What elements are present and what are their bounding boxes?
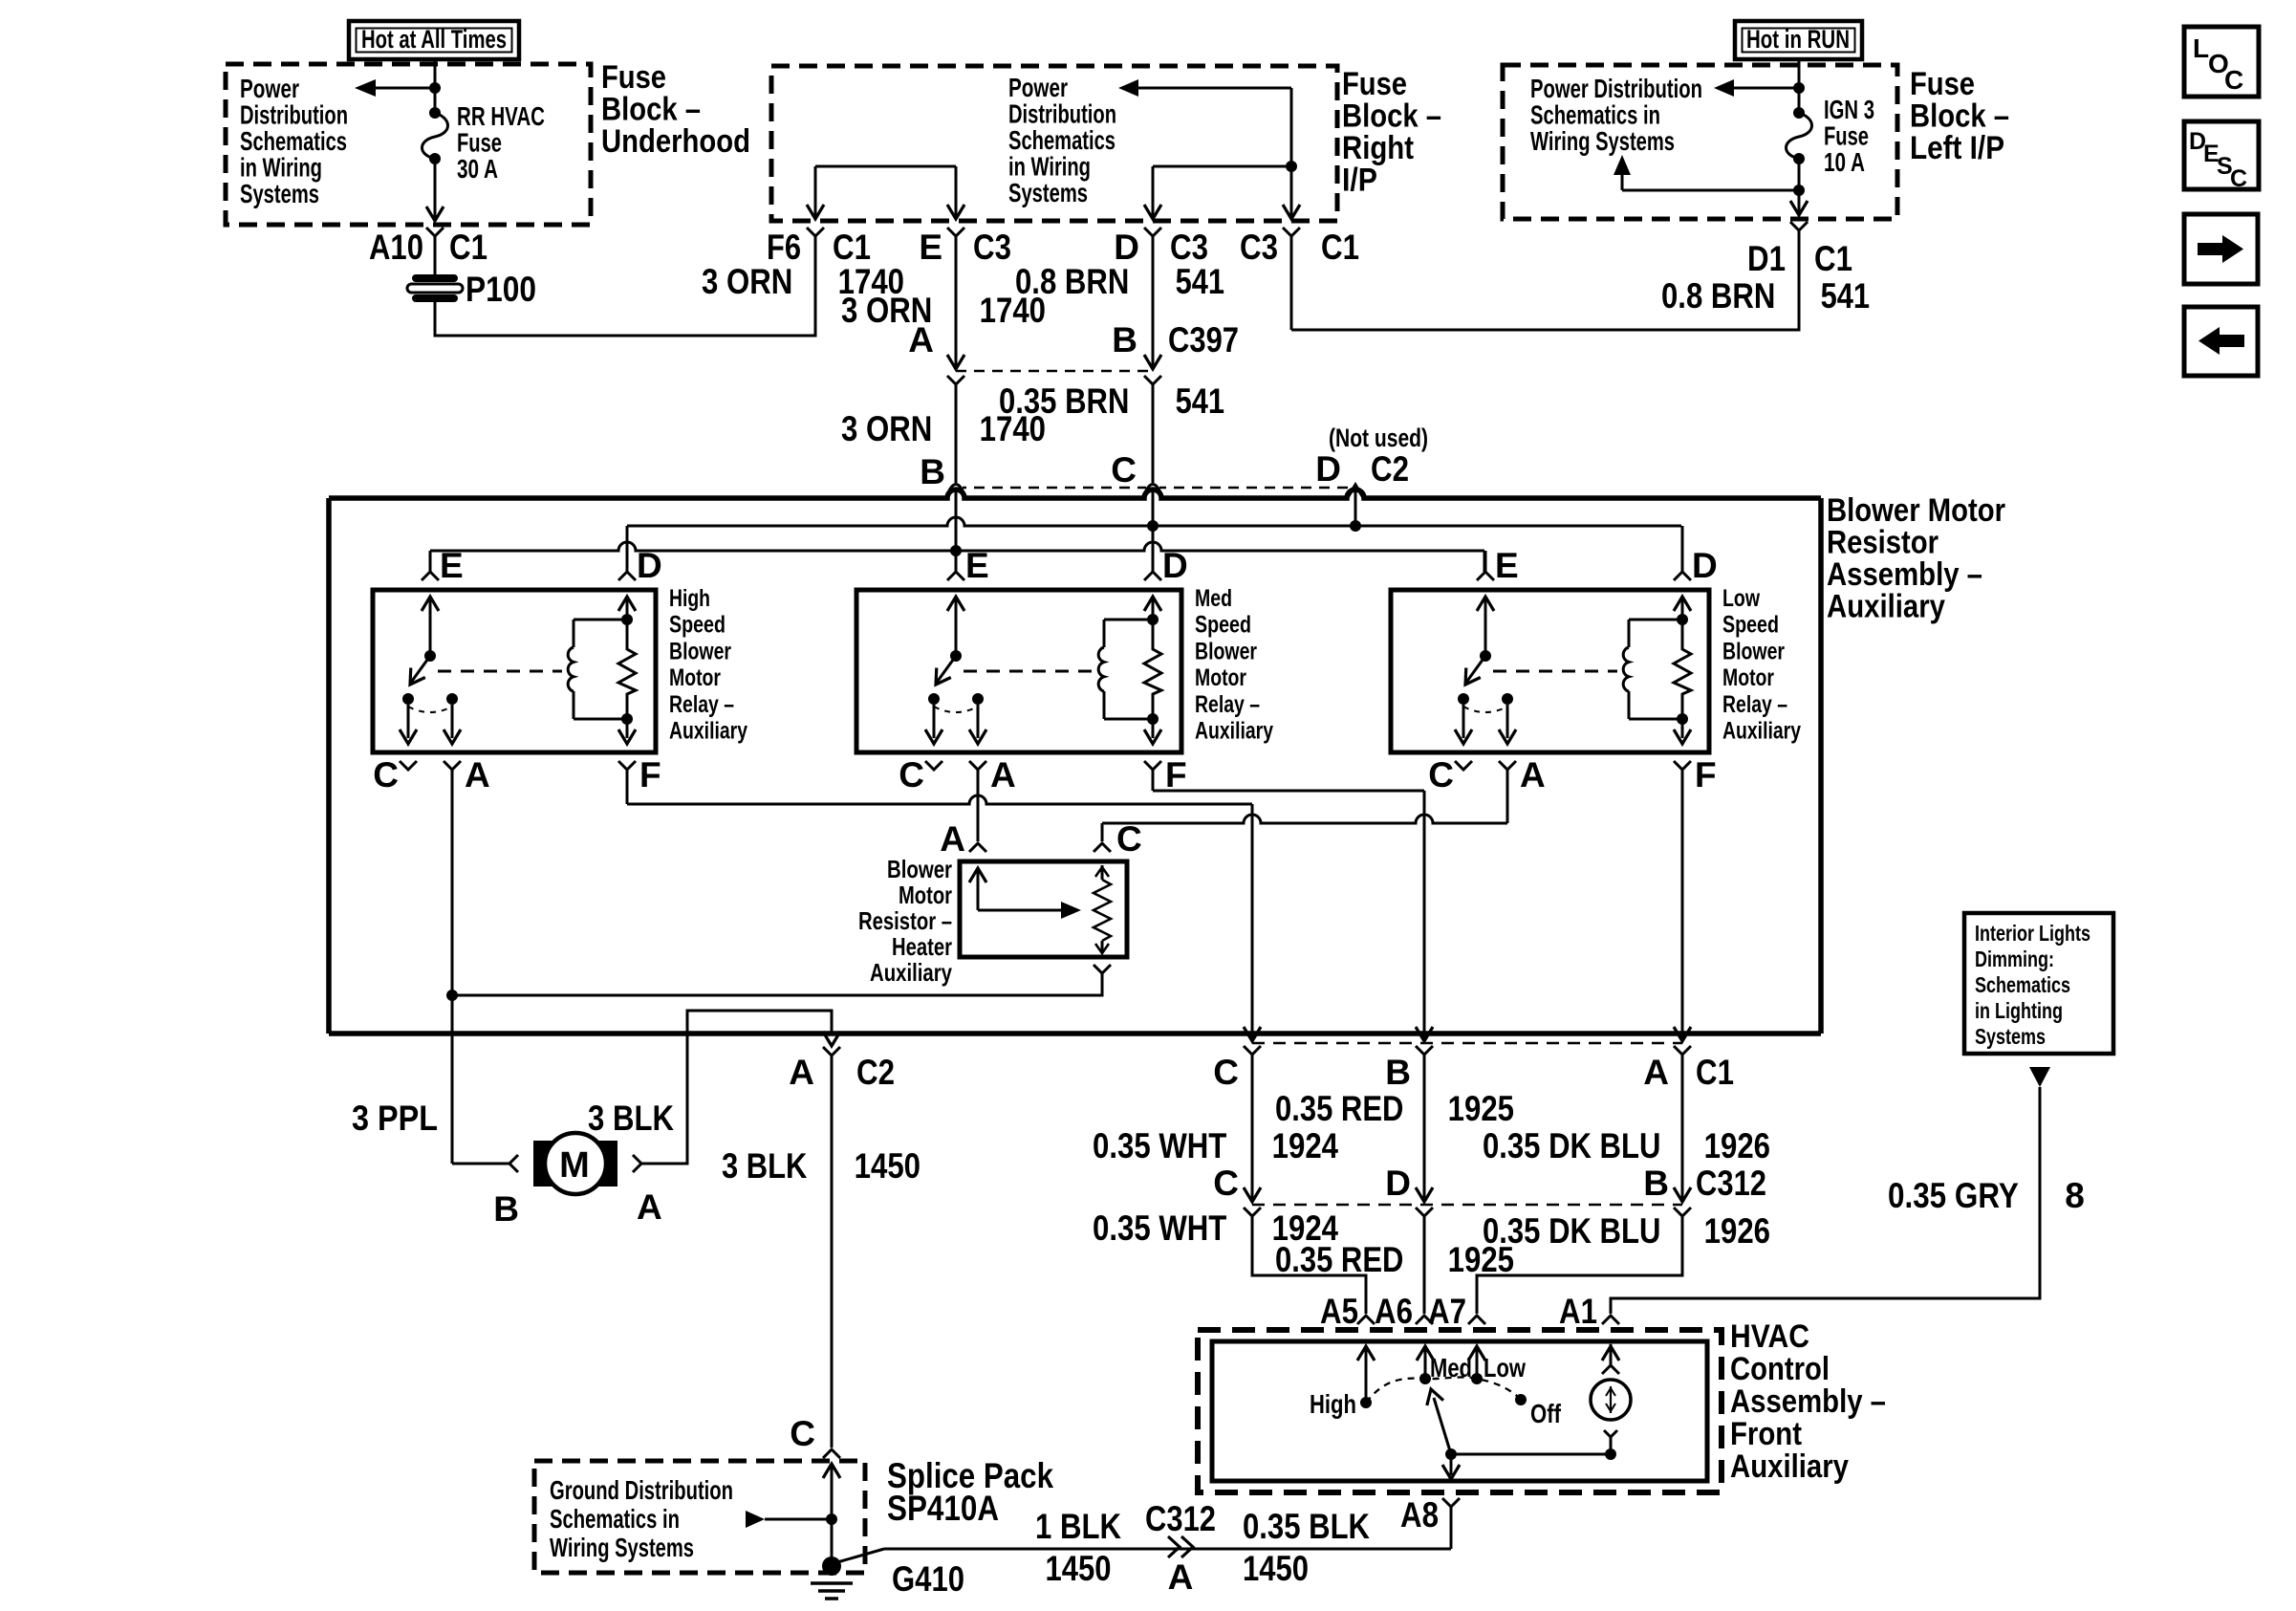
- svg-text:F: F: [639, 755, 661, 795]
- svg-text:P100: P100: [466, 270, 536, 309]
- relay K3 coil inductor: [1628, 620, 1631, 647]
- wire: fuse output to connector C1 pin A10: [434, 159, 437, 218]
- svg-text:Speed: Speed: [669, 612, 726, 639]
- svg-text:in Lighting: in Lighting: [1975, 998, 2063, 1023]
- svg-text:D: D: [1162, 546, 1188, 585]
- svg-text:Systems: Systems: [1975, 1024, 2046, 1049]
- svg-text:Motor: Motor: [669, 664, 721, 691]
- svg-text:Low: Low: [1484, 1353, 1526, 1382]
- svg-text:A10: A10: [369, 228, 423, 267]
- svg-text:Auxiliary: Auxiliary: [1827, 589, 1945, 625]
- svg-text:C: C: [1213, 1164, 1239, 1203]
- wire: D1/C1 down and left to C3/C1 of right IP block: [1291, 230, 1799, 330]
- svg-text:F6: F6: [767, 228, 801, 267]
- svg-text:I/P: I/P: [1342, 163, 1377, 199]
- pin D wire into relay K2: [1152, 526, 1155, 572]
- svg-text:Power: Power: [240, 74, 299, 103]
- svg-text:Relay –: Relay –: [669, 691, 734, 718]
- wire: C397 A to blower resistor assembly pin B: [947, 376, 964, 384]
- relay K1 coil bottom link: [574, 718, 627, 721]
- wire: A10 to P100: [434, 236, 437, 276]
- svg-text:A1: A1: [1559, 1292, 1597, 1331]
- svg-text:A: A: [1168, 1557, 1194, 1597]
- svg-text:1450: 1450: [1243, 1549, 1309, 1588]
- svg-text:Low: Low: [1722, 585, 1760, 612]
- node: E-bus junction at B wire: [950, 545, 962, 556]
- svg-text:541: 541: [1812, 276, 1870, 316]
- fuse block underhood dashed box: [226, 64, 591, 225]
- svg-text:Heater: Heater: [892, 932, 952, 961]
- relay K1 contact A arrow: [451, 705, 454, 738]
- svg-text:Fuse: Fuse: [457, 128, 502, 158]
- HVAC switch pin A7 arrow: [1476, 1348, 1479, 1379]
- svg-text:C397: C397: [1168, 320, 1239, 359]
- svg-text:Power Distribution: Power Distribution: [1530, 74, 1702, 103]
- svg-text:G410: G410: [892, 1559, 964, 1599]
- connector C312 dashed line: [1252, 1204, 1682, 1207]
- relay K3 contact C arrow: [1462, 705, 1465, 738]
- svg-text:0.35 WHT: 0.35 WHT: [1093, 1208, 1235, 1248]
- relay K2 resistor: [1147, 614, 1159, 625]
- D-bus horizontal wire: [627, 517, 1681, 526]
- svg-text:1450: 1450: [1046, 1549, 1112, 1588]
- connector C397 dashed line: [956, 370, 1153, 373]
- svg-text:Auxiliary: Auxiliary: [1730, 1448, 1849, 1485]
- HVAC panel lamp: [1602, 1365, 1619, 1374]
- C2 crossing chevron at B: [949, 483, 963, 491]
- HVAC switch output arrow A8: [1450, 1454, 1453, 1475]
- off-page arrow left (right box): [1732, 87, 1799, 90]
- svg-text:C1: C1: [1696, 1053, 1734, 1092]
- svg-text:0.35 RED: 0.35 RED: [1275, 1240, 1412, 1279]
- svg-text:Systems: Systems: [1008, 178, 1088, 207]
- svg-text:B: B: [493, 1189, 519, 1229]
- svg-text:C3: C3: [1170, 228, 1208, 267]
- wire: C1 A to C312 B: [1681, 1055, 1684, 1200]
- wire: C312 B to HVAC pin A7: [1477, 1216, 1682, 1314]
- wire: D/C3 down to connector C397 pin B: [1152, 236, 1155, 367]
- svg-text:D: D: [637, 546, 662, 585]
- resistor box resistor element: [1101, 865, 1104, 880]
- svg-text:Wiring Systems: Wiring Systems: [1530, 126, 1675, 156]
- svg-text:C1: C1: [1814, 239, 1852, 278]
- svg-text:1740: 1740: [971, 291, 1046, 330]
- svg-text:3 ORN: 3 ORN: [702, 262, 801, 301]
- svg-text:30 A: 30 A: [457, 154, 498, 184]
- svg-text:B: B: [1112, 320, 1137, 359]
- svg-text:3 PPL: 3 PPL: [352, 1099, 438, 1138]
- svg-text:Blower: Blower: [887, 855, 952, 883]
- wire: E/C3 down to connector C397 pin A: [955, 236, 958, 367]
- wire: motor left lead: [452, 1163, 509, 1165]
- svg-text:Blower: Blower: [1722, 638, 1785, 664]
- svg-text:Schematics: Schematics: [1975, 972, 2070, 997]
- svg-text:Fuse: Fuse: [601, 59, 666, 96]
- svg-text:E: E: [440, 546, 464, 585]
- svg-text:High: High: [1310, 1389, 1356, 1419]
- svg-text:A: A: [465, 755, 490, 795]
- svg-text:IGN 3: IGN 3: [1824, 95, 1874, 124]
- branch arrow up to schematics text: [1622, 189, 1799, 192]
- pin E wire into relay K1: [429, 551, 432, 572]
- svg-text:Interior Lights: Interior Lights: [1975, 921, 2090, 946]
- wire: relay K3 pin F to wire A (0.35 DK BLU): [1681, 770, 1684, 1039]
- svg-text:C: C: [2230, 165, 2247, 192]
- svg-text:SP410A: SP410A: [887, 1489, 999, 1528]
- svg-text:D: D: [1385, 1164, 1411, 1203]
- node: fuse RR HVAC top junction: [429, 82, 441, 94]
- svg-text:Dimming:: Dimming:: [1975, 947, 2054, 971]
- power label box: Hot at All Times: [349, 21, 519, 59]
- relay K2 switch common: [955, 597, 958, 656]
- svg-text:B: B: [1385, 1053, 1411, 1092]
- off-page triangle down from interior lights box: [2029, 1067, 2050, 1087]
- relay K3 resistor: [1677, 614, 1688, 625]
- svg-text:Blower: Blower: [1195, 638, 1257, 664]
- svg-text:E: E: [965, 546, 989, 585]
- HVAC switch Med contact: [1419, 1373, 1431, 1384]
- svg-text:3 BLK: 3 BLK: [588, 1099, 674, 1138]
- HVAC switch High contact: [1360, 1397, 1372, 1408]
- power label box: Hot in RUN: [1735, 21, 1862, 59]
- fuse block left IP dashed box: [1503, 65, 1897, 219]
- HVAC switch pin A6 arrow: [1424, 1348, 1427, 1379]
- pin E wire into relay K2: [955, 551, 958, 572]
- svg-text:C: C: [1116, 819, 1142, 859]
- pin D wire into relay K3: [1681, 526, 1684, 572]
- svg-text:C2: C2: [1371, 449, 1409, 489]
- svg-text:Front: Front: [1730, 1416, 1802, 1452]
- svg-text:C: C: [2224, 65, 2243, 95]
- svg-text:B: B: [920, 452, 945, 491]
- relay K2 contacts: [928, 693, 940, 705]
- svg-text:Auxiliary: Auxiliary: [1195, 718, 1273, 745]
- svg-text:Assembly –: Assembly –: [1827, 556, 1982, 593]
- svg-text:A: A: [940, 819, 965, 859]
- relay K3 switch common: [1484, 597, 1487, 656]
- wire: C1 feed down through fuse block right IP: [1290, 88, 1293, 217]
- svg-text:Off: Off: [1530, 1399, 1562, 1428]
- relay K1 coil link dashed: [438, 670, 562, 673]
- relay box K3: [1391, 590, 1709, 752]
- svg-text:Auxiliary: Auxiliary: [669, 718, 747, 745]
- interior lights dimming reference box: [1964, 913, 2113, 1054]
- svg-text:E: E: [1495, 546, 1519, 585]
- svg-text:0.8 BRN: 0.8 BRN: [1661, 276, 1784, 316]
- svg-text:Speed: Speed: [1195, 612, 1251, 639]
- svg-text:A: A: [908, 320, 934, 359]
- power distribution dashed box (middle): [771, 66, 1337, 221]
- svg-text:E: E: [919, 228, 942, 267]
- svg-text:Distribution: Distribution: [240, 100, 348, 130]
- HVAC control assembly dashed box: [1198, 1330, 1722, 1492]
- wire: splice to ground G410: [831, 1519, 834, 1560]
- HVAC switch Low contact: [1471, 1373, 1483, 1384]
- node: IGN3 fuse top junction: [1793, 82, 1805, 94]
- svg-text:Wiring Systems: Wiring Systems: [550, 1533, 694, 1562]
- connector C2 dashed line: [956, 487, 1355, 490]
- icon button DESC: [2184, 121, 2259, 189]
- svg-text:A: A: [637, 1187, 662, 1227]
- relay K1 switch common: [429, 597, 432, 656]
- relay K3 pin A chevron: [1499, 761, 1516, 770]
- off-page arrow left (power distribution middle): [1137, 87, 1291, 90]
- relay K2 coil inductor: [1103, 620, 1106, 647]
- ground G410 symbol: [822, 1557, 841, 1576]
- bus loop: F6 to E inside fuse block right IP: [815, 165, 956, 168]
- svg-text:Med: Med: [1195, 585, 1232, 612]
- svg-text:Hot in RUN: Hot in RUN: [1746, 25, 1850, 54]
- wire: battery feed into fuse block underhood: [434, 59, 437, 88]
- wire: relay K1 pin F to wire C (0.35 WHT): [626, 770, 629, 804]
- svg-text:3 BLK: 3 BLK: [722, 1146, 815, 1186]
- svg-text:Relay –: Relay –: [1195, 691, 1260, 718]
- relay K3 coil top link: [1629, 619, 1682, 621]
- wire: motor right lead up and to C2 pin A: [633, 1155, 641, 1172]
- connector C312 inline marker: [1168, 1536, 1180, 1557]
- wire: relay K2 pin F to wire B (0.35 RED): [1152, 770, 1155, 791]
- relay K3 coil bottom link: [1629, 718, 1682, 721]
- node: IGN3 lower junction: [1793, 185, 1805, 196]
- svg-text:Resistor: Resistor: [1827, 525, 1939, 561]
- svg-text:Relay –: Relay –: [1722, 691, 1787, 718]
- relay K2 coil link dashed: [964, 670, 1093, 673]
- pin A8 chevron: [1442, 1498, 1460, 1507]
- svg-text:1450: 1450: [846, 1146, 921, 1186]
- relay K1 switch arm: [410, 656, 430, 684]
- HVAC switch common node: [1445, 1448, 1457, 1460]
- relay K1 pin C chevron: [400, 761, 417, 770]
- svg-text:C3: C3: [1240, 228, 1278, 267]
- node: splice pack junction: [826, 1513, 837, 1525]
- svg-text:A7: A7: [1428, 1292, 1466, 1331]
- relay K2 pin F arrow: [1152, 719, 1155, 738]
- svg-text:C3: C3: [973, 228, 1011, 267]
- svg-text:RR HVAC: RR HVAC: [457, 101, 545, 131]
- svg-text:Blower: Blower: [669, 638, 731, 664]
- wire: C312 D to HVAC pin A6: [1423, 1216, 1426, 1314]
- svg-text:Fuse: Fuse: [1910, 66, 1975, 102]
- svg-text:C: C: [899, 755, 924, 795]
- svg-text:1 BLK: 1 BLK: [1035, 1507, 1121, 1546]
- svg-text:D: D: [1315, 449, 1341, 489]
- svg-text:C1: C1: [833, 228, 871, 267]
- wire: E-bus corner down to relay K3 pin E: [1484, 551, 1486, 572]
- svg-text:Block –: Block –: [1910, 98, 2009, 135]
- pin D wire into relay K1: [626, 526, 629, 572]
- resistor box pin A arrow and wiper: [977, 868, 980, 910]
- svg-text:Motor: Motor: [1195, 664, 1246, 691]
- svg-text:Block –: Block –: [601, 92, 701, 128]
- relay K3 coil link dashed: [1493, 670, 1617, 673]
- HVAC switch Off contact: [1515, 1394, 1527, 1405]
- wire: B feed through box edge to E-bus: [955, 498, 958, 551]
- relay K1 pin F chevron: [618, 761, 636, 770]
- svg-text:0.35 BLK: 0.35 BLK: [1243, 1507, 1370, 1546]
- svg-text:High: High: [669, 585, 710, 612]
- relay K1 pin D arrow: [626, 597, 629, 620]
- wire: relay K3 pin A to resistor pin C: [1506, 770, 1509, 823]
- relay K1 pin F arrow: [626, 719, 629, 738]
- svg-text:0.35 GRY: 0.35 GRY: [1888, 1176, 2026, 1215]
- svg-text:Blower Motor: Blower Motor: [1827, 492, 2005, 529]
- HVAC switch wiper arm: [1434, 1398, 1451, 1454]
- svg-text:1740: 1740: [971, 409, 1046, 448]
- svg-text:Systems: Systems: [240, 179, 319, 208]
- svg-text:B: B: [1643, 1164, 1669, 1203]
- connector C1 chevrons: [1244, 1046, 1261, 1055]
- relay box K1: [373, 590, 656, 752]
- wire: relay K2 pin A to resistor pin A: [977, 770, 980, 841]
- svg-text:F: F: [1165, 755, 1187, 795]
- svg-text:C: C: [1428, 755, 1454, 795]
- svg-text:0.35 RED: 0.35 RED: [1275, 1089, 1412, 1128]
- svg-text:D1: D1: [1747, 239, 1786, 278]
- relay K3 pin F arrow: [1681, 719, 1684, 738]
- svg-text:Left I/P: Left I/P: [1910, 130, 2004, 166]
- svg-text:C312: C312: [1145, 1499, 1216, 1538]
- svg-text:1924: 1924: [1264, 1126, 1338, 1165]
- svg-text:Motor: Motor: [1722, 664, 1774, 691]
- svg-text:A5: A5: [1320, 1292, 1358, 1331]
- wire: resistor output to relay K1 pin A junction: [452, 973, 1102, 995]
- wire: 0.35 GRY 8 to HVAC pin A1: [1611, 1087, 2040, 1314]
- icon button next arrow: [2184, 214, 2258, 284]
- relay K3 pin F chevron: [1674, 761, 1691, 770]
- svg-text:Resistor –: Resistor –: [858, 906, 952, 935]
- svg-text:C1: C1: [1321, 228, 1359, 267]
- svg-text:Right: Right: [1342, 130, 1414, 166]
- svg-text:Auxiliary: Auxiliary: [870, 958, 952, 987]
- relay K3 contact A arrow: [1506, 705, 1509, 738]
- HVAC switch common wire to lamp: [1451, 1453, 1611, 1456]
- wire: fuse IGN3 to junction: [1798, 159, 1801, 190]
- svg-text:1925: 1925: [1440, 1089, 1514, 1128]
- svg-text:0.35 DK BLU: 0.35 DK BLU: [1483, 1126, 1669, 1165]
- svg-text:3 ORN: 3 ORN: [841, 409, 941, 448]
- HVAC switch pin A5 arrow: [1365, 1348, 1368, 1403]
- svg-text:C: C: [373, 755, 399, 795]
- svg-text:Schematics: Schematics: [240, 126, 347, 156]
- blower motor M: [533, 1141, 554, 1186]
- svg-text:1925: 1925: [1440, 1240, 1514, 1279]
- svg-text:A: A: [990, 755, 1016, 795]
- blower motor resistor heater auxiliary box: [960, 861, 1127, 957]
- fuse RR HVAC 30 A symbol: [429, 107, 441, 119]
- svg-text:C312: C312: [1696, 1164, 1766, 1203]
- wire: A8 to splice pack (0.35 BLK 1450): [1450, 1507, 1453, 1549]
- E-bus horizontal wire: [430, 542, 1484, 551]
- node: D-bus junction at C wire: [1147, 520, 1159, 532]
- svg-text:F: F: [1695, 755, 1717, 795]
- svg-text:in Wiring: in Wiring: [1008, 152, 1091, 182]
- node: junction resistor output on wire A: [446, 990, 458, 1001]
- relay K2 contact C arrow: [933, 705, 936, 738]
- svg-text:Control: Control: [1730, 1351, 1830, 1387]
- relay box K2: [856, 590, 1181, 752]
- blower motor resistor assembly box: [329, 490, 1821, 498]
- wire: C feed through box edge to D-bus: [1152, 498, 1155, 526]
- wire: C2 D stub through box edge: [1354, 498, 1357, 526]
- svg-text:8: 8: [2055, 1176, 2085, 1215]
- svg-text:Underhood: Underhood: [601, 123, 750, 160]
- C2 crossing chevron at C: [1146, 483, 1159, 491]
- svg-text:in Wiring: in Wiring: [240, 153, 322, 183]
- svg-text:C: C: [1213, 1053, 1239, 1092]
- svg-text:C: C: [790, 1414, 815, 1453]
- pin E wire into relay K3: [1484, 551, 1487, 572]
- wire: C397 B to blower resistor assembly pin C: [1144, 376, 1161, 384]
- svg-text:D: D: [1114, 228, 1139, 267]
- off-page arrow left (power distribution): [375, 87, 435, 90]
- svg-text:Fuse: Fuse: [1824, 121, 1869, 151]
- relay K3 contacts: [1458, 693, 1469, 705]
- relay K3 pin D arrow: [1681, 597, 1684, 620]
- HVAC switch dashed arc: [1366, 1377, 1521, 1403]
- svg-text:Power: Power: [1008, 73, 1068, 102]
- svg-text:A: A: [789, 1053, 814, 1092]
- wire: relay K1 pin A down to motor (3 PPL): [451, 770, 454, 1164]
- wire: IGN3 to connector C1 pin D1: [1798, 190, 1801, 212]
- relay K2 coil top link: [1104, 619, 1153, 621]
- svg-text:Distribution: Distribution: [1008, 99, 1116, 129]
- svg-text:(Not used): (Not used): [1329, 424, 1428, 452]
- HVAC control assembly inner box: [1212, 1341, 1707, 1481]
- relay K2 pin A chevron: [969, 761, 986, 770]
- relay K3 switch arm: [1465, 656, 1485, 684]
- relay K1 coil inductor: [573, 620, 575, 647]
- node: junction on C1 feed: [1286, 161, 1297, 172]
- icon button LOC: [2184, 27, 2259, 97]
- relay K2 coil bottom link: [1104, 718, 1153, 721]
- svg-text:Schematics: Schematics: [1008, 125, 1116, 155]
- wire: C312 C to HVAC pin A5: [1252, 1216, 1366, 1314]
- wire: C3/C1 stub down: [1290, 236, 1293, 330]
- wire: P100 to fuse block underhood pin F6 (3 ORN 1740): [435, 236, 815, 336]
- svg-text:1926: 1926: [1696, 1211, 1770, 1251]
- relay K2 pin C chevron: [925, 761, 942, 770]
- resistor box output chevron: [1094, 965, 1111, 973]
- relay K2 contact A arrow: [977, 705, 980, 738]
- connector C1 dashed line: [1252, 1042, 1682, 1045]
- svg-text:Auxiliary: Auxiliary: [1722, 718, 1801, 745]
- wire: C1 B to C312 D: [1423, 1055, 1426, 1200]
- relay K2 pin F chevron: [1144, 761, 1161, 770]
- svg-text:1926: 1926: [1696, 1126, 1770, 1165]
- svg-text:D: D: [1692, 546, 1718, 585]
- relay K1 resistor: [621, 614, 633, 625]
- svg-text:A: A: [1643, 1053, 1669, 1092]
- connector C312 chevrons: [1244, 1208, 1261, 1216]
- svg-text:Assembly –: Assembly –: [1730, 1383, 1886, 1420]
- svg-text:Block –: Block –: [1342, 98, 1441, 135]
- svg-text:Motor: Motor: [899, 881, 952, 909]
- node: D-bus junction at C2 stub: [1350, 520, 1361, 532]
- wire: run feed into fuse block left IP: [1798, 59, 1801, 88]
- svg-text:541: 541: [1167, 381, 1224, 421]
- svg-text:C1: C1: [449, 228, 487, 267]
- ground distribution dashed box: [534, 1461, 865, 1573]
- wire: 3 BLK 1450 down to splice pack: [831, 1056, 834, 1448]
- svg-text:Fuse: Fuse: [1342, 66, 1407, 102]
- svg-text:Ground Distribution: Ground Distribution: [550, 1475, 733, 1505]
- relay K3 pin C chevron: [1455, 761, 1472, 770]
- grommet P100: [412, 274, 458, 282]
- relay K2 switch arm: [936, 656, 956, 684]
- svg-text:Speed: Speed: [1722, 612, 1779, 639]
- svg-text:0.35 WHT: 0.35 WHT: [1093, 1126, 1235, 1165]
- svg-text:Schematics in: Schematics in: [1530, 100, 1660, 130]
